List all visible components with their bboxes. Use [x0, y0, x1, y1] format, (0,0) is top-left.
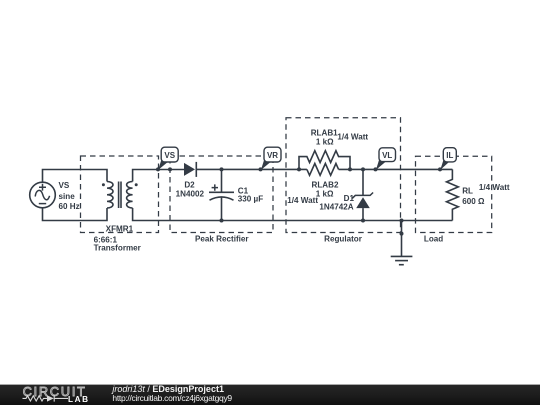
svg-text:Transformer: Transformer	[94, 244, 142, 253]
diode D2	[184, 162, 196, 177]
svg-text:1N4002: 1N4002	[176, 189, 205, 198]
node flag VL	[376, 148, 396, 170]
wire primary bottom	[43, 208, 108, 221]
svg-text:1/4 Watt: 1/4 Watt	[337, 133, 368, 142]
junction C1 top	[220, 167, 224, 171]
logo squiggle resistor+diode	[23, 395, 69, 401]
box Regulator	[286, 118, 401, 233]
svg-text:http://circuitlab.com/cz4j6xga: http://circuitlab.com/cz4j6xgatgqy9	[112, 393, 232, 403]
junction node IL flag	[438, 167, 442, 171]
junction RLAB parallel right	[348, 167, 352, 171]
svg-text:sine: sine	[59, 192, 76, 201]
node flag IL	[440, 148, 456, 170]
wire secondary bottom	[133, 208, 453, 221]
svg-text:RL: RL	[462, 187, 473, 196]
voltage source VS	[30, 182, 56, 208]
resistor RL	[447, 169, 459, 220]
svg-text:VS: VS	[59, 181, 70, 190]
svg-text:1 kΩ: 1 kΩ	[316, 190, 334, 199]
junction RLAB parallel left	[297, 167, 301, 171]
svg-text:60 Hz: 60 Hz	[59, 202, 80, 211]
svg-text:Peak Rectifier: Peak Rectifier	[195, 234, 249, 243]
svg-text:VL: VL	[382, 151, 392, 160]
wire primary top	[43, 170, 108, 183]
svg-text:LAB: LAB	[68, 395, 90, 404]
box Transformer	[81, 156, 159, 233]
svg-text:IL: IL	[446, 151, 453, 160]
wire RLAB2 to RL	[339, 168, 453, 170]
node flag VR	[261, 147, 281, 170]
svg-text:VS: VS	[164, 151, 175, 160]
junction D1 top	[361, 167, 365, 171]
junction node VL flag	[374, 167, 378, 171]
junction ground rail	[400, 219, 404, 223]
wire D2 to RLAB2	[196, 168, 307, 170]
box Load	[416, 156, 492, 232]
capacitor C1	[209, 170, 234, 221]
svg-text:D2: D2	[184, 181, 195, 190]
resistor RLAB1	[299, 151, 350, 170]
junction node VS flag	[156, 167, 160, 171]
transformer XFMR1	[102, 182, 138, 209]
svg-text:330 µF: 330 µF	[238, 195, 263, 204]
ground	[391, 221, 413, 265]
junction ground stem	[400, 232, 404, 236]
junction C1 bottom	[220, 219, 224, 223]
resistor RLAB2	[307, 164, 339, 176]
svg-text:RLAB1: RLAB1	[311, 129, 338, 138]
junction D1 bottom	[361, 219, 365, 223]
svg-text:Load: Load	[424, 234, 443, 243]
label VS source	[59, 181, 80, 211]
junction node VR flag	[259, 167, 263, 171]
node flag VS	[158, 147, 178, 170]
box Peak Rectifier	[170, 156, 273, 233]
svg-text:1 kΩ: 1 kΩ	[316, 138, 334, 147]
svg-text:Regulator: Regulator	[324, 234, 363, 243]
wire secondary top	[133, 170, 184, 182]
zener diode D1	[352, 170, 373, 221]
junction secondary rail	[168, 167, 172, 171]
svg-text:600 Ω: 600 Ω	[462, 197, 485, 206]
svg-text:1/4 Watt: 1/4 Watt	[287, 196, 318, 205]
svg-text:VR: VR	[267, 151, 278, 160]
svg-text:XFMR1: XFMR1	[106, 224, 134, 233]
svg-text:1/4 Watt: 1/4 Watt	[479, 183, 510, 192]
svg-text:RLAB2: RLAB2	[312, 180, 339, 189]
svg-text:1N4742A: 1N4742A	[319, 203, 353, 212]
